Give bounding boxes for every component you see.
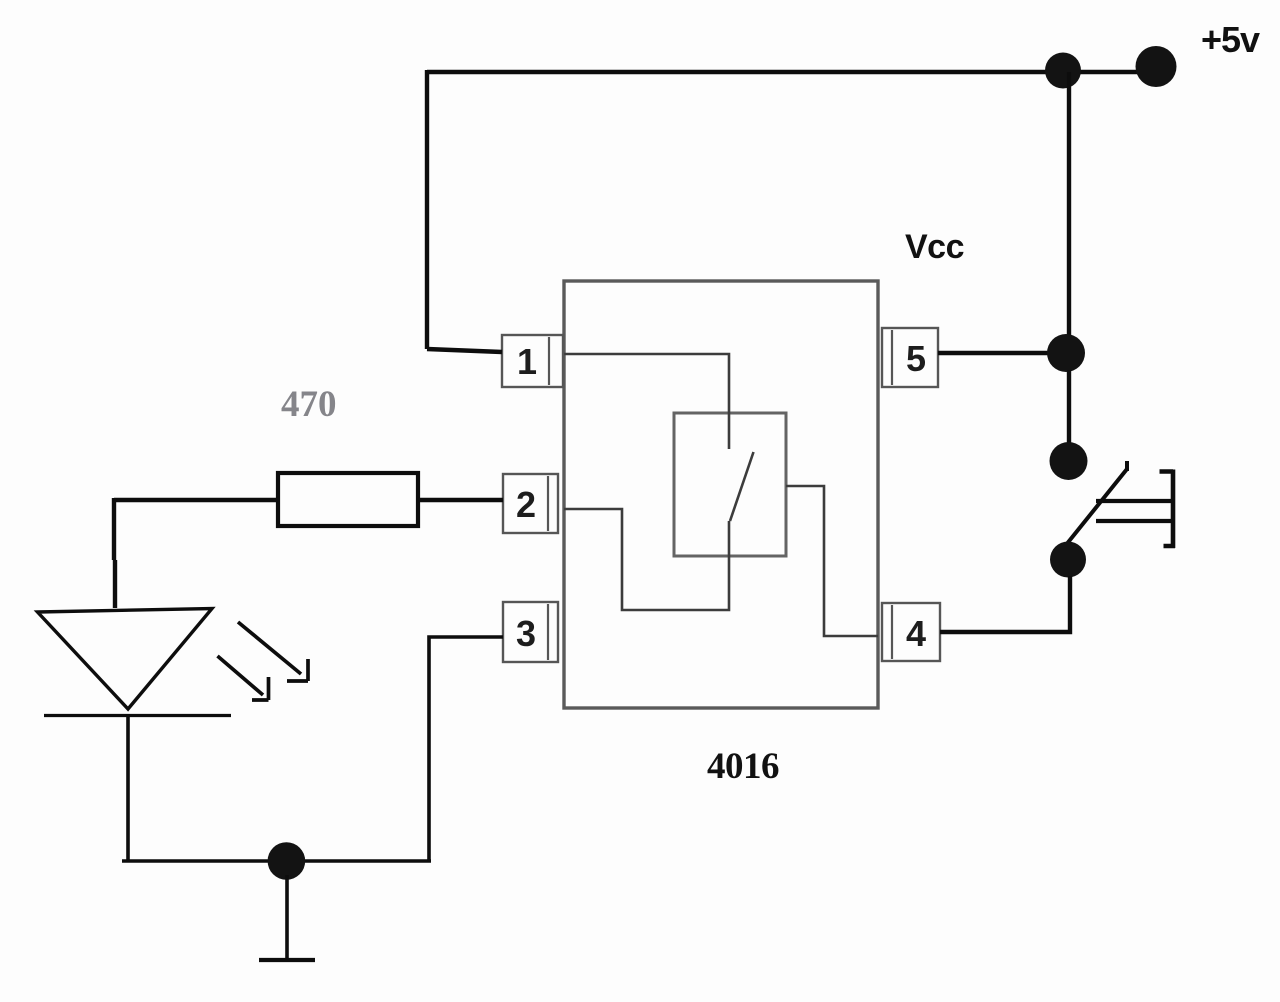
LED emission arrow 2 — [218, 656, 269, 700]
wire: down to LED anode — [114, 498, 115, 608]
svg-text:5: 5 — [906, 338, 926, 379]
wire: resistor left lead — [114, 498, 278, 502]
svg-text:+5v: +5v — [1201, 19, 1260, 60]
LED D1 cathode bar — [44, 714, 231, 717]
pin 4 — [882, 603, 940, 661]
node: +5V terminal dot — [1136, 46, 1177, 87]
wire: bend into pin 1 — [427, 349, 502, 352]
svg-text:4: 4 — [906, 613, 926, 654]
wire: resistor to pin 2 — [418, 498, 503, 502]
LED emission arrow 1 — [238, 622, 308, 681]
wire: switch bottom node to pin 4 — [940, 576, 1070, 632]
node: pin 5 junction dot — [1047, 334, 1085, 372]
wire: pin5 node down to switch top node — [1067, 370, 1071, 445]
node: switch bottom dot — [1050, 542, 1086, 578]
svg-text:4016: 4016 — [707, 746, 779, 787]
node: +5V rail junction dot — [1045, 53, 1081, 89]
internal wire: switch bottom contact to pin 2 — [564, 509, 729, 610]
wire: pin 3 to ground rail — [429, 637, 503, 861]
svg-text:2: 2 — [516, 484, 536, 525]
internal wire: switch box to pin 4 — [786, 486, 878, 636]
switch S1 lever — [1064, 461, 1128, 548]
wire: LED cathode down — [126, 714, 130, 861]
LED D1 triangle — [38, 609, 213, 710]
wire: +5V top rail — [427, 70, 1156, 74]
wire: right vertical +5V rail down to pin 5 node — [1067, 72, 1071, 353]
node: switch top dot — [1050, 442, 1088, 480]
internal switch lever — [730, 452, 754, 521]
svg-text:3: 3 — [516, 613, 536, 654]
svg-text:470: 470 — [281, 384, 337, 425]
switch S1 plunger lines — [1096, 501, 1171, 521]
internal switch box — [674, 413, 786, 556]
wire: bottom ground rail — [122, 859, 431, 863]
pin 3 — [503, 602, 558, 662]
IC U1 body (4016 switch IC) — [564, 281, 878, 708]
node: ground junction dot — [268, 842, 306, 880]
ground symbol bar — [259, 958, 315, 962]
resistor R1 body — [278, 473, 418, 526]
wire: left vertical from +5V rail — [425, 70, 429, 349]
pin 5 — [882, 328, 938, 387]
switch S1 push-button cap — [1160, 470, 1176, 549]
wire: pin 5 to junction — [938, 351, 1066, 355]
ground symbol stem — [285, 875, 289, 960]
pin 2 — [503, 474, 558, 533]
internal wire: pin 1 to switch top contact — [564, 354, 729, 449]
svg-text:Vcc: Vcc — [905, 228, 964, 266]
pin 1 — [502, 335, 563, 387]
svg-text:1: 1 — [517, 341, 537, 382]
